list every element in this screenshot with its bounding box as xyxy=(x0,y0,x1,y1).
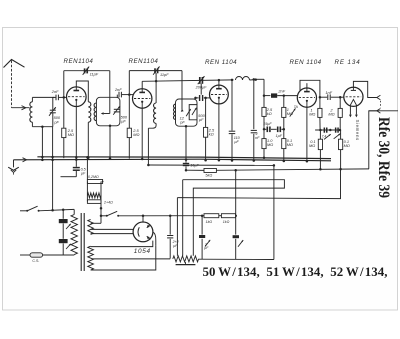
wire HT bus2 xyxy=(37,157,331,159)
label 0.1M R11 xyxy=(309,139,316,148)
svg-text:MΩ: MΩ xyxy=(287,142,293,147)
wire heater rect xyxy=(199,164,276,259)
tube V3 REN1104 xyxy=(210,85,229,104)
speaker dashed link xyxy=(380,101,382,108)
wire R17 R18 joins xyxy=(87,181,103,224)
svg-text:1kΩ: 1kΩ xyxy=(206,220,213,224)
svg-text:Siemens: Siemens xyxy=(355,120,360,141)
label Rfe 30 Rfe 39 xyxy=(375,117,392,198)
wire output box xyxy=(369,111,398,169)
wire ground bus xyxy=(14,159,332,161)
wire tap 0.2M xyxy=(86,156,89,182)
wire drop B xyxy=(51,127,54,211)
coil L2 primary xyxy=(87,102,91,159)
wire sec bottom xyxy=(91,246,156,270)
choke L7 xyxy=(236,77,257,81)
wire V2 grid-leak xyxy=(128,71,131,159)
wire tank2 bottom drop xyxy=(109,125,112,160)
label 1uF xyxy=(276,134,283,138)
capacitor C2 2nF xyxy=(53,95,67,101)
svg-text:C.S.: C.S. xyxy=(32,259,39,263)
svg-text:REN 1104: REN 1104 xyxy=(290,59,322,66)
label 5k xyxy=(205,173,212,177)
label 7,4 xyxy=(322,135,327,139)
capacitor C21 block xyxy=(59,219,71,229)
variable capacitor C8 dual xyxy=(186,108,196,116)
svg-text:MΩ: MΩ xyxy=(309,112,315,117)
resistor R8 1M xyxy=(318,97,322,130)
capacitor C15 1uF xyxy=(278,127,285,133)
rheostat slider bar xyxy=(176,262,196,265)
label 2nF C16 xyxy=(277,89,285,94)
trimmer arrow C20 xyxy=(238,240,243,247)
tube V4 REN1104 xyxy=(297,88,316,107)
svg-text:MΩ: MΩ xyxy=(344,143,350,148)
svg-text:5kΩ: 5kΩ xyxy=(205,173,212,177)
label 2.5k xyxy=(266,107,273,116)
svg-text:pF: pF xyxy=(179,120,185,125)
wire V5 anode loop xyxy=(353,81,376,97)
svg-text:2+4Ω: 2+4Ω xyxy=(103,200,113,204)
switch S1 xyxy=(26,206,39,212)
ground xyxy=(8,160,19,175)
wire tank3 bottom drop xyxy=(185,125,188,172)
svg-text:REN1104: REN1104 xyxy=(64,58,94,65)
svg-text:MΩ: MΩ xyxy=(309,143,315,148)
capacitor C13 2uF xyxy=(251,78,257,162)
label REN1104 V1 xyxy=(64,58,94,65)
wire grid V4 xyxy=(263,94,271,97)
svg-text:REN1104: REN1104 xyxy=(129,58,159,65)
svg-text:1nF: 1nF xyxy=(325,90,332,95)
label 2nF C5 xyxy=(114,87,122,92)
resistor R15 1k xyxy=(221,214,235,218)
wire sec tapB rectifier xyxy=(91,229,134,233)
label 15uF xyxy=(263,122,272,126)
label 1M R8 xyxy=(309,108,315,117)
label 11pF C7 xyxy=(160,72,169,77)
wire heater switch line xyxy=(101,215,236,217)
wire V2 cathode down xyxy=(141,108,144,160)
wire bias B2 tap xyxy=(182,180,184,256)
svg-text:RE 134: RE 134 xyxy=(335,59,361,66)
wire V6 top xyxy=(142,214,145,222)
coil L6 tank3 xyxy=(174,104,176,119)
capacitor C19 16uF xyxy=(183,164,189,166)
wire tank1 bottom xyxy=(32,125,52,128)
rheostat RH1 xyxy=(173,256,199,262)
label CS xyxy=(32,259,39,263)
label 500pF xyxy=(53,115,61,124)
svg-text:REN 1104: REN 1104 xyxy=(205,59,237,66)
svg-text:2nF: 2nF xyxy=(277,89,285,94)
capacitor C11 110uF xyxy=(229,79,236,162)
wire output return xyxy=(369,110,377,112)
label 16uF xyxy=(190,163,199,167)
svg-text:MΩ: MΩ xyxy=(328,112,334,117)
wire V4 anode loop xyxy=(300,80,320,97)
wire bias B3 xyxy=(177,169,340,256)
capacitor C5 2nF xyxy=(117,92,133,98)
wire sec tap heater xyxy=(92,258,170,260)
label REN1104 V3 xyxy=(205,59,237,66)
resistor R6 1M xyxy=(282,96,286,139)
capacitor C22 block xyxy=(59,239,71,249)
label 2uF C13 xyxy=(255,132,261,140)
svg-text:1kΩ: 1kΩ xyxy=(223,220,230,224)
wire V1 top feedback line xyxy=(64,70,110,72)
wire bias line L3 xyxy=(148,164,274,166)
wire V3 anode stub xyxy=(218,80,220,85)
label 1k R14 xyxy=(206,220,213,224)
wire V2 top feedback line xyxy=(129,70,182,72)
svg-text:µF: µF xyxy=(121,118,126,123)
fuse F1 xyxy=(30,253,43,257)
variable capacitor C4 xyxy=(113,106,120,115)
label 500uF xyxy=(198,113,205,122)
wire V3 cathode down xyxy=(218,104,221,162)
resistor R17 wirewound xyxy=(87,193,101,198)
wire rheo tap1 xyxy=(169,214,172,258)
tube V5 RE134 xyxy=(344,87,363,106)
capacitor C17 1nF xyxy=(328,94,344,100)
coil L4 anode coil xyxy=(147,73,156,166)
wire RC filter xyxy=(263,127,267,131)
trimmer arrow R6 xyxy=(290,108,296,116)
capacitor C16 2nF blocking xyxy=(271,93,298,97)
label REN1104 V2 xyxy=(129,58,159,65)
tank3 box xyxy=(176,99,198,126)
wire cap return xyxy=(61,176,77,178)
trimmer capacitor C7 11pF xyxy=(153,66,159,74)
wire fuse to transformer xyxy=(43,254,75,256)
svg-text:MΩ: MΩ xyxy=(267,142,273,147)
wire mains switch line xyxy=(20,209,74,215)
wire sec tapC xyxy=(91,241,153,247)
output terminal 1 xyxy=(377,95,381,100)
capacitor C23 2+2uF xyxy=(167,236,173,238)
wire HT feed right xyxy=(256,79,264,107)
svg-text:0,2MΩ: 0,2MΩ xyxy=(88,175,99,179)
wire feedback drop 2 xyxy=(181,71,184,112)
svg-text:2nF: 2nF xyxy=(51,89,59,94)
label 2+2uF xyxy=(172,240,179,248)
label 0.1M R7 xyxy=(287,138,293,147)
label REN1104 V4 xyxy=(290,59,322,66)
label 110uF xyxy=(234,136,241,144)
tank2 box xyxy=(96,97,120,126)
resistor R3 25k xyxy=(204,97,208,162)
wire V2 anode rail xyxy=(142,79,233,89)
svg-text:Rfe 30, Rfe 39: Rfe 30, Rfe 39 xyxy=(375,117,392,198)
coil L3 tank2 xyxy=(94,103,96,121)
switch S2 xyxy=(106,211,119,217)
trimmer capacitor C10 200uF xyxy=(198,76,205,84)
wire drop C xyxy=(62,210,64,255)
capacitor C6 0.5uF xyxy=(73,160,80,177)
resistor R12 0.1M xyxy=(339,130,343,170)
tank3 inner box xyxy=(189,105,197,120)
resistor R16 0.2M xyxy=(87,180,102,184)
transformer T1 core xyxy=(81,213,84,271)
svg-text:µF: µF xyxy=(234,140,239,144)
label 2+4 xyxy=(103,200,113,204)
transformer T1 secondary upper xyxy=(88,219,94,234)
wire grid-leak V1 xyxy=(63,71,66,159)
trimmer arrow bias xyxy=(324,134,340,140)
wire bias B2 xyxy=(183,180,285,256)
wire bias line L4 xyxy=(186,169,369,171)
label 1.0M xyxy=(267,138,273,147)
resistor R2 2.5M xyxy=(127,128,139,138)
label 1054 xyxy=(134,248,151,255)
wire antenna to coil tap xyxy=(12,106,30,110)
capacitor C24 2uF xyxy=(199,235,210,247)
label 2uF C24 xyxy=(204,242,209,250)
bus arrow xyxy=(23,158,27,162)
label 1k R15 xyxy=(223,220,230,224)
svg-text:1054: 1054 xyxy=(134,248,151,255)
label 200uF xyxy=(195,86,208,90)
wire V1 anode loop xyxy=(76,81,88,102)
caption 50W134 xyxy=(203,265,388,279)
svg-text:2nF: 2nF xyxy=(114,87,122,92)
label 25k xyxy=(208,127,215,136)
label 1M R6 xyxy=(287,107,293,116)
svg-text:50 W / 134, 51 W / 134, 52 W: 50 W / 134, 51 W / 134, 52 W / 134, xyxy=(203,265,388,279)
capacitor C20 xyxy=(233,235,239,238)
svg-text:11pF: 11pF xyxy=(90,72,99,77)
variable capacitor C1 500pF xyxy=(49,97,56,126)
label 2nF xyxy=(51,89,59,94)
resistor R4 2.5k xyxy=(262,107,266,126)
wire tank1 top xyxy=(32,96,54,98)
svg-text:7A: 7A xyxy=(294,105,299,109)
label 1nF xyxy=(325,90,332,95)
wire mains input xyxy=(20,254,30,256)
coil L1 antenna tank xyxy=(30,97,33,126)
wire V4 cathode down xyxy=(306,107,309,162)
svg-text:16µF: 16µF xyxy=(190,163,199,167)
svg-text:µF: µF xyxy=(81,172,86,176)
resistor R18 2+4 xyxy=(87,200,101,204)
label 7A xyxy=(294,105,299,109)
svg-text:7,4: 7,4 xyxy=(322,135,327,139)
svg-text:MΩ: MΩ xyxy=(133,132,139,137)
capacitor C14 15uF xyxy=(267,127,276,133)
trimmer capacitor C3 11pF xyxy=(83,67,89,75)
output terminal 2 xyxy=(377,109,381,114)
tube V6 1054 xyxy=(133,222,153,242)
resistor R7 0.1M xyxy=(282,139,286,163)
antenna xyxy=(4,60,25,108)
transformer T1 primary xyxy=(71,215,77,255)
svg-text:11pF: 11pF xyxy=(160,72,169,77)
filament legs V5 xyxy=(349,106,358,117)
transformer T1 secondary lower xyxy=(88,246,94,270)
wire rheo tap2 xyxy=(201,214,204,259)
wire sec tapA switch xyxy=(91,222,101,224)
label 0.1M R12 xyxy=(344,139,350,148)
label 0.5uF xyxy=(81,168,87,176)
wire grid V3 xyxy=(194,84,210,101)
label 11pF xyxy=(90,72,99,77)
tube V2 REN1104 xyxy=(133,89,152,108)
svg-text:15µF: 15µF xyxy=(263,122,272,126)
tube V1 REN1104 xyxy=(67,87,87,107)
svg-text:kΩ: kΩ xyxy=(267,111,272,116)
svg-text:MΩ: MΩ xyxy=(68,132,74,137)
label 12pF xyxy=(179,116,185,125)
svg-text:nF: nF xyxy=(255,136,260,140)
resistor R1 2.5M xyxy=(62,128,74,138)
svg-text:kΩ: kΩ xyxy=(209,131,214,136)
label Siemens xyxy=(355,120,360,141)
wire V4 plate to grid V5 xyxy=(319,96,328,99)
capacitor C18 grid bias xyxy=(315,128,341,133)
svg-text:pF: pF xyxy=(53,119,59,124)
label 0.2M xyxy=(88,175,99,179)
wire feedback drop xyxy=(101,71,110,115)
resistor R9 2M xyxy=(338,97,342,130)
label 2M R9 xyxy=(328,108,334,117)
wire V6 right xyxy=(153,232,156,246)
resistor R13 5k xyxy=(204,168,216,172)
resistor R5 1.0M xyxy=(262,131,266,159)
resistor R11 0.1M xyxy=(318,130,322,170)
label RE134 xyxy=(335,59,361,66)
svg-text:µF: µF xyxy=(199,117,204,122)
wire drop A xyxy=(41,127,44,161)
wire V1 cathode down xyxy=(75,107,78,161)
svg-text:1µF: 1µF xyxy=(276,134,283,138)
resistor R14 1k xyxy=(204,214,219,218)
label 500pF tank2 xyxy=(121,114,128,123)
